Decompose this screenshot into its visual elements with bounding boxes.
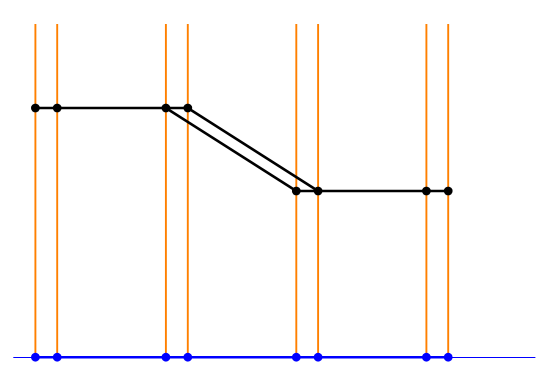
fiber line f2 xyxy=(56,24,58,357)
fiber line f4 xyxy=(187,24,189,357)
fiber line f3 xyxy=(165,24,167,357)
branch point P3 xyxy=(162,353,171,362)
branch point P6 xyxy=(314,353,323,362)
branch point P5 xyxy=(292,353,301,362)
fiber line f6 xyxy=(317,24,319,357)
vertex V6 xyxy=(314,187,323,196)
fiber line f1 xyxy=(34,24,36,357)
vertex V2 xyxy=(53,104,62,113)
branch point P8 xyxy=(444,353,453,362)
base axis line (thin blue) xyxy=(13,357,535,359)
vertex V4 xyxy=(183,104,192,113)
branch point P7 xyxy=(422,353,431,362)
fiber line f5 xyxy=(295,24,297,357)
curve edge bottom horizontal xyxy=(296,190,448,193)
branch point P2 xyxy=(53,353,62,362)
branch point P1 xyxy=(31,353,40,362)
vertex V3 xyxy=(162,104,171,113)
fiber line f7 xyxy=(425,24,427,357)
base segment (thick blue) xyxy=(35,356,448,359)
curve edge diagonal A xyxy=(166,108,296,191)
vertex V7 xyxy=(422,187,431,196)
curve edge diagonal B xyxy=(188,108,318,191)
curve edge top horizontal xyxy=(35,107,187,110)
branch point P4 xyxy=(183,353,192,362)
fiber line f8 xyxy=(447,24,449,357)
vertex V1 xyxy=(31,104,40,113)
vertex V8 xyxy=(444,187,453,196)
vertex V5 xyxy=(292,187,301,196)
